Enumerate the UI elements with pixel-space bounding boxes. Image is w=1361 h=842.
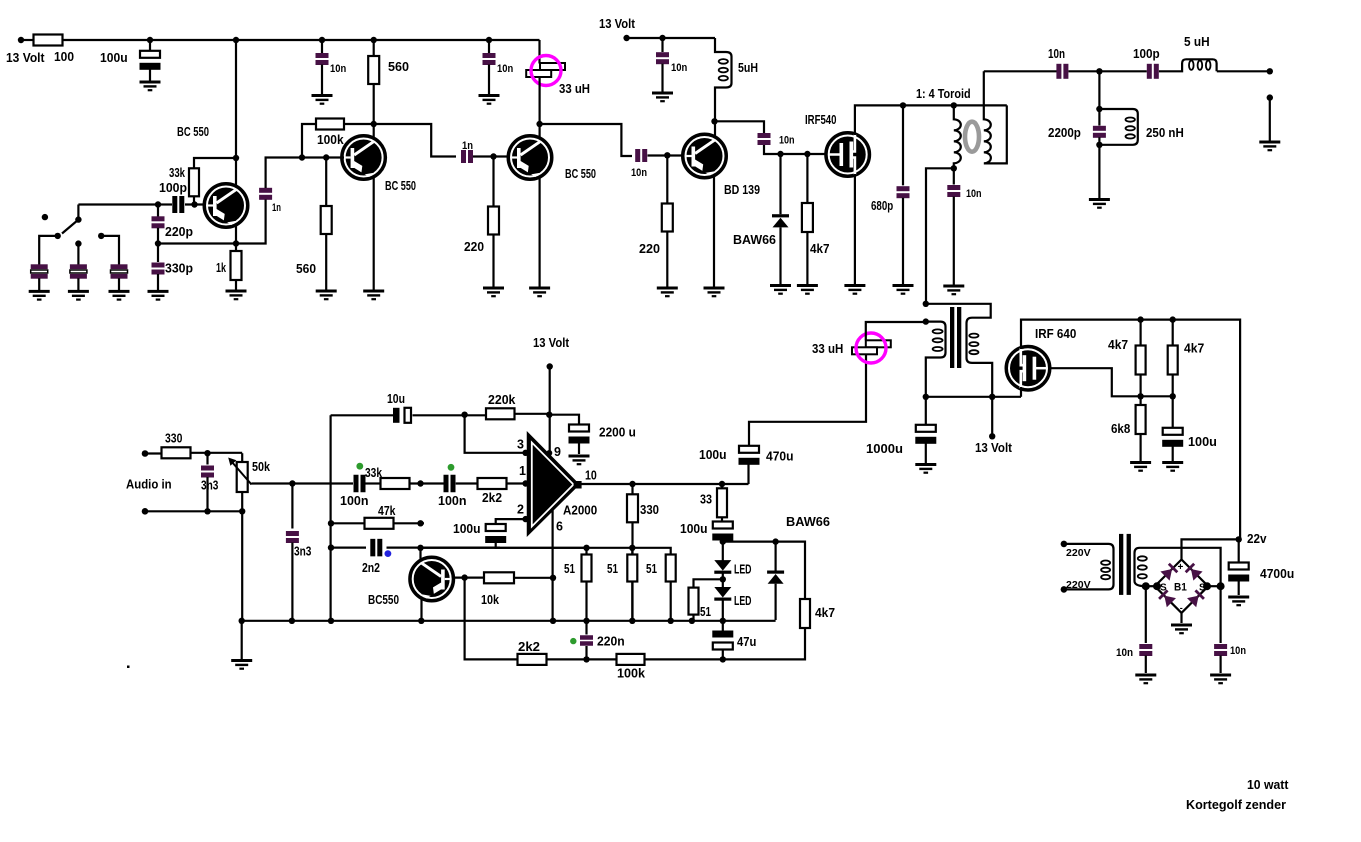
node 220k-13V xyxy=(546,412,552,418)
svg-text:22v: 22v xyxy=(1247,532,1267,546)
wire 33k-100n2 xyxy=(410,482,445,484)
node bridge left xyxy=(1142,582,1150,590)
svg-text:250 nH: 250 nH xyxy=(1146,126,1184,140)
capacitor 10n (rail b) xyxy=(483,53,496,65)
svg-text:13 Volt: 13 Volt xyxy=(599,17,636,31)
svg-text:LED: LED xyxy=(734,563,752,577)
wire 13V second rail xyxy=(627,37,715,39)
wire 2200u to ground xyxy=(578,441,580,455)
node Q4 collector xyxy=(417,545,423,551)
green dot 2 xyxy=(448,464,455,471)
potentiometer 50k xyxy=(237,462,248,492)
wire Q4 collector lead xyxy=(419,548,421,560)
wire 680p bottom xyxy=(902,198,904,285)
node toroid primary top xyxy=(951,102,957,108)
node Q1 emitter xyxy=(233,240,239,246)
wire 4k7d leads xyxy=(1172,320,1174,397)
wire Q2 collector to 1n2 xyxy=(374,124,456,157)
wire BD139 emitter xyxy=(713,175,715,287)
wire Q1 emitter xyxy=(235,226,237,251)
svg-text:51: 51 xyxy=(607,562,618,576)
wire 3n3b bottom xyxy=(291,543,293,621)
bridge diode lower-left xyxy=(1158,589,1176,607)
transistor Q3 BC550 xyxy=(508,136,552,180)
transformer driver primary rings xyxy=(933,329,943,351)
psu transformer core xyxy=(1119,534,1123,595)
svg-text:100u: 100u xyxy=(699,448,727,462)
transistor BD139 xyxy=(683,134,727,178)
wire Q3 emitter xyxy=(538,176,540,287)
capacitor 3n3 (wiper) xyxy=(286,531,299,543)
svg-text:10k: 10k xyxy=(481,593,499,607)
wire tank bottom xyxy=(1098,137,1100,198)
resistor 4k7 (divider upper right) xyxy=(1168,346,1178,375)
wire driver bottom line xyxy=(926,396,1021,398)
wire output mid xyxy=(1069,70,1147,72)
svg-text:BC 550: BC 550 xyxy=(177,125,209,139)
node rail-10n b xyxy=(486,37,492,43)
ground 680p xyxy=(893,286,914,294)
resistor 47k xyxy=(365,518,394,529)
ground 100u irf xyxy=(1162,463,1183,471)
ground 10n psu-b xyxy=(1210,675,1231,683)
wire 3n3b top xyxy=(291,484,293,529)
node bridge right xyxy=(1203,582,1211,590)
wire BAW66b bottom xyxy=(774,584,776,620)
svg-text:100u: 100u xyxy=(453,522,481,536)
wire 220a top xyxy=(492,157,494,207)
transformer toroid primary winding xyxy=(954,105,961,168)
wire 560 top lead xyxy=(373,40,375,56)
node bridge left2 xyxy=(1153,582,1161,590)
resistor 4k7 (divider upper left) xyxy=(1136,346,1146,375)
wire pin6 line xyxy=(551,510,553,621)
ground tank xyxy=(1089,200,1110,208)
wire 100u cap top xyxy=(149,40,151,51)
green dot 3 xyxy=(570,638,576,644)
wire 2n2 line right xyxy=(387,546,501,548)
svg-text:3: 3 xyxy=(517,438,524,452)
wire wiper line xyxy=(252,482,354,484)
svg-text:2200 u: 2200 u xyxy=(599,426,636,440)
bridge diode upper-left xyxy=(1160,562,1178,580)
transformer driver primary winding spine xyxy=(926,322,946,397)
svg-text:3n3: 3n3 xyxy=(201,479,218,493)
node Q1 collector-33k xyxy=(233,155,239,161)
transistor Q4 BC550 xyxy=(410,557,454,601)
transformer driver secondary rings xyxy=(969,334,978,355)
node rail-x331 xyxy=(328,618,334,624)
svg-text:10: 10 xyxy=(585,469,597,483)
ground 10n-a xyxy=(312,96,333,104)
node 10u-220k-pin3 xyxy=(461,412,467,418)
svg-text:330: 330 xyxy=(640,503,659,517)
wire 51 feed rail xyxy=(421,548,671,555)
node rail-51b xyxy=(629,618,635,624)
ground 10n-b xyxy=(479,96,500,104)
wire to BAW66b xyxy=(723,538,805,599)
svg-text:BD 139: BD 139 xyxy=(724,183,760,197)
svg-text:BC 550: BC 550 xyxy=(565,167,596,181)
wire LED junction xyxy=(722,573,724,587)
svg-text:2k2: 2k2 xyxy=(482,491,502,505)
svg-text:10n: 10n xyxy=(631,167,647,179)
wire IRF640 source xyxy=(1020,387,1022,397)
svg-text:10n: 10n xyxy=(966,188,982,200)
wire 330p leads xyxy=(157,244,159,291)
wire 680p top xyxy=(902,105,904,185)
node rail-LED xyxy=(720,618,726,624)
wire 4k7c leads xyxy=(1139,320,1141,397)
wire 560b to ground xyxy=(325,234,327,290)
svg-text:470u: 470u xyxy=(766,450,794,464)
capacitor 100p (output) xyxy=(1147,64,1159,79)
capacitor 1000u xyxy=(915,425,936,444)
wire rail corner down to choke xyxy=(538,40,540,64)
node Q1 base xyxy=(191,201,197,207)
node rail-51a xyxy=(583,618,589,624)
node 47k left xyxy=(328,520,334,526)
svg-text:10u: 10u xyxy=(387,392,405,406)
node rail-audio gnd xyxy=(239,618,245,624)
wire 13V input xyxy=(21,39,34,41)
wire BAW66a top xyxy=(779,154,781,214)
wire Q3 collector out xyxy=(540,124,632,156)
svg-text:1n: 1n xyxy=(462,140,473,152)
wire bridge plus xyxy=(1182,539,1239,559)
svg-text:220k: 220k xyxy=(488,393,515,407)
wire bridge minus xyxy=(1180,613,1182,623)
svg-text:33 uH: 33 uH xyxy=(559,82,590,96)
svg-text:13 Volt: 13 Volt xyxy=(533,336,570,350)
svg-text:50k: 50k xyxy=(252,460,270,474)
wire 10n-b to ground xyxy=(488,65,490,95)
node audio-3n3 xyxy=(204,450,210,456)
ground crystal3 xyxy=(109,291,130,299)
capacitor 220p xyxy=(152,216,165,228)
node rail-pin6 xyxy=(550,618,556,624)
resistor 1k xyxy=(231,251,242,280)
wire 220n bottom xyxy=(585,646,587,659)
resistor 2k2 (feedback) xyxy=(518,654,547,665)
capacitor 100u (pin2) xyxy=(485,524,506,543)
wire 100u cap to ground xyxy=(149,67,151,81)
svg-text:4k7: 4k7 xyxy=(815,606,835,620)
wire 47k line xyxy=(331,522,424,524)
node Q3 base xyxy=(490,153,496,159)
inductor 33uH (Q3 collector choke) xyxy=(526,63,565,77)
wire 10u line xyxy=(331,414,395,416)
inductor 5uH (output) rings xyxy=(1189,60,1210,69)
resistor 2k2 (pin1) xyxy=(478,478,507,489)
node pin1 xyxy=(522,480,528,486)
wire LED2 to rail xyxy=(722,600,724,633)
wire antenna xyxy=(1217,70,1270,72)
wire 220b to ground xyxy=(666,232,668,288)
node rail-560 xyxy=(371,37,377,43)
green dot 1 xyxy=(356,463,363,470)
node Q4 base xyxy=(461,574,467,580)
node 33k-100n2 xyxy=(417,480,423,486)
svg-text:13 Volt: 13 Volt xyxy=(975,441,1013,455)
wire 10n psu-b gnd xyxy=(1219,656,1221,674)
wire 51d bottom xyxy=(692,615,694,621)
terminal audio in bottom xyxy=(142,508,149,515)
transformer psu secondary winding spine xyxy=(1135,548,1221,586)
wire choke to Q3 collector node xyxy=(538,77,540,140)
wire emitter feedback xyxy=(158,242,236,244)
svg-text:5uH: 5uH xyxy=(738,61,758,75)
svg-text:51: 51 xyxy=(564,562,575,576)
driver transformer core xyxy=(950,307,954,368)
svg-text:33k: 33k xyxy=(169,166,185,180)
node xtal-select xyxy=(155,201,161,207)
capacitor 10u xyxy=(393,408,411,423)
ground 10n-c xyxy=(652,93,673,101)
resistor 220 (Q3 base) xyxy=(488,207,499,235)
resistor 51 c xyxy=(666,555,676,582)
resistor 330 (audio in) xyxy=(162,447,191,458)
svg-text:10 watt: 10 watt xyxy=(1247,778,1289,792)
wire 220p top xyxy=(157,205,159,217)
wire crystal2 bottom xyxy=(77,278,79,290)
svg-text:51: 51 xyxy=(646,562,657,576)
wire bridge right xyxy=(1208,585,1220,587)
node bridge right2 xyxy=(1217,582,1225,590)
wire 330 top xyxy=(631,484,633,494)
node gate-BAW66 xyxy=(777,151,783,157)
node 220p-330p xyxy=(155,240,161,246)
bridge diode upper-right xyxy=(1184,562,1202,580)
wire audio top2 xyxy=(191,452,243,454)
wire 10n-b top xyxy=(488,40,490,53)
svg-text:IRF 640: IRF 640 xyxy=(1035,327,1076,341)
node gate-4k7 xyxy=(804,151,810,157)
wire 220k right xyxy=(515,413,550,415)
capacitor 1n (interstage) xyxy=(259,188,272,200)
switch contact 1 xyxy=(55,233,61,239)
mosfet IRF540 xyxy=(826,133,870,177)
wire 1000u bottom xyxy=(925,441,927,464)
wire 4k7b bottom xyxy=(723,628,805,659)
svg-text:+: + xyxy=(1178,562,1184,573)
wire 470u to choke2 xyxy=(749,355,866,447)
wire 560 to Q2 collector xyxy=(373,84,375,140)
svg-text:9: 9 xyxy=(554,445,561,459)
resistor 220k xyxy=(486,408,515,419)
resistor 100k (feedback) xyxy=(617,654,645,665)
ground 6k8 xyxy=(1130,463,1151,471)
terminal 13V second xyxy=(623,35,629,41)
wire crystal1 top xyxy=(39,236,58,265)
node 22v xyxy=(1236,536,1242,542)
transformer psu secondary rings xyxy=(1138,556,1147,578)
wire toroid bottom to 10n xyxy=(953,168,955,184)
node Q4 emitter rail xyxy=(418,618,424,624)
wire 10n psu-a xyxy=(1145,586,1147,643)
svg-text:6: 6 xyxy=(556,520,563,534)
diode BAW66 (gate clamp) xyxy=(772,214,789,227)
ground antenna xyxy=(1259,142,1280,150)
wire 10k to pin6 line xyxy=(514,577,553,579)
node fb-220n xyxy=(583,656,589,662)
svg-text:100u: 100u xyxy=(680,522,708,536)
wire 10n to BD139 base xyxy=(648,154,685,156)
mosfet IRF640 xyxy=(1006,346,1050,390)
svg-text:100n: 100n xyxy=(438,494,467,508)
wire 3n3a bottom xyxy=(206,477,208,511)
svg-text:33k: 33k xyxy=(365,466,382,480)
node drain-680p xyxy=(900,102,906,108)
node output filter xyxy=(1096,68,1102,74)
node rail-3n3b xyxy=(289,618,295,624)
inductor 250nH spine xyxy=(1099,109,1137,145)
svg-text:560: 560 xyxy=(388,60,409,74)
terminal audio in top xyxy=(142,450,149,457)
node Q2 collector xyxy=(371,121,377,127)
node toroid bottom xyxy=(951,165,957,171)
node pot bottom xyxy=(239,508,245,514)
capacitor 10n (rail a) xyxy=(316,53,329,65)
node tank top xyxy=(1096,106,1102,112)
svg-text:4k7: 4k7 xyxy=(1108,338,1128,352)
svg-text:10n: 10n xyxy=(779,135,795,147)
node BD139 base xyxy=(664,152,670,158)
wire 4k7a bottom xyxy=(806,232,808,285)
node fb-47u xyxy=(720,656,726,662)
ground 10n toroid xyxy=(943,286,964,294)
svg-text:-: - xyxy=(1180,603,1183,613)
wire 13V to pin9 xyxy=(549,367,551,454)
svg-text:330p: 330p xyxy=(165,262,193,276)
node gate-6k8 xyxy=(1137,393,1143,399)
ground 560b xyxy=(316,291,337,299)
diode LED 2 xyxy=(714,587,731,601)
capacitor 2n2 xyxy=(370,539,382,557)
wire 220p bottom xyxy=(157,228,159,244)
ground 4k7a xyxy=(797,286,818,294)
crystal X1 xyxy=(31,264,48,278)
wire to switch xyxy=(78,203,158,205)
wire Q2 emitter xyxy=(373,176,375,290)
wire 100u irf leads xyxy=(1172,396,1174,461)
ground BD139 emitter xyxy=(704,288,725,296)
capacitor 10n (Q3-BD139) xyxy=(635,149,647,162)
svg-text:10n: 10n xyxy=(330,63,346,75)
resistor 6k8 xyxy=(1136,405,1146,434)
node out-33 xyxy=(719,481,725,487)
capacitor 2200p xyxy=(1093,126,1106,138)
wire feedback riser xyxy=(465,578,518,660)
ground crystal2 xyxy=(68,291,89,299)
capacitor 10n (psu right) xyxy=(1214,644,1227,656)
ground 4700u xyxy=(1228,597,1249,605)
resistor 560 (Q2 base) xyxy=(321,206,332,234)
wire 10n psu-a gnd xyxy=(1145,656,1147,674)
ground IRF540 source xyxy=(844,286,865,294)
wire 100k right lead xyxy=(344,123,374,125)
wire audio bottom xyxy=(145,510,242,512)
resistor 330 (output) xyxy=(627,494,638,522)
terminal 13V left xyxy=(18,37,24,43)
svg-text:5 uH: 5 uH xyxy=(1184,35,1210,49)
capacitor 10n (toroid) xyxy=(947,185,960,197)
svg-text:33: 33 xyxy=(700,493,712,507)
wire 220b top xyxy=(666,155,668,203)
svg-text:B1: B1 xyxy=(1174,582,1187,594)
resistor 51 b xyxy=(627,555,637,582)
transistor Q2 BC550 xyxy=(342,136,386,180)
switch arm xyxy=(62,220,78,234)
node tank bottom xyxy=(1096,142,1102,148)
node driver left tap xyxy=(923,318,929,324)
svg-text:4k7: 4k7 xyxy=(810,242,830,256)
node Q3 collector xyxy=(536,121,542,127)
svg-text:100u: 100u xyxy=(100,51,128,65)
stray dot xyxy=(127,666,130,669)
ground 100u xyxy=(140,82,161,90)
wire 10n-c to ground xyxy=(661,64,663,92)
svg-text:1: 4 Toroid: 1: 4 Toroid xyxy=(916,87,971,101)
svg-text:51: 51 xyxy=(700,605,711,619)
potentiometer wiper arrow xyxy=(232,462,252,485)
svg-text:47k: 47k xyxy=(378,504,396,518)
capacitor 330p xyxy=(152,263,165,275)
wire audio ground stub xyxy=(241,621,243,660)
svg-text:4k7: 4k7 xyxy=(1184,342,1204,356)
wire 220a to ground xyxy=(492,235,494,288)
resistor 10k xyxy=(484,572,514,583)
crystal X2 xyxy=(70,264,87,278)
capacitor 100n (first) xyxy=(354,475,366,493)
capacitor 100u (LED chain) xyxy=(712,522,733,541)
switch pole xyxy=(75,216,81,222)
wire 13V mid-right xyxy=(991,397,993,437)
resistor 4k7 (gate) xyxy=(802,203,813,232)
wire 10n psu-b xyxy=(1219,586,1221,643)
wire 10n-c top xyxy=(661,38,663,52)
svg-text:2: 2 xyxy=(517,503,524,517)
resistor 100 xyxy=(34,35,63,46)
wire output line xyxy=(579,483,749,485)
wire antenna ground xyxy=(1269,98,1271,141)
blue dot xyxy=(385,550,392,557)
wire 100u pin2 return xyxy=(496,543,587,548)
svg-text:10n: 10n xyxy=(671,62,688,74)
wire LED jog to 51d xyxy=(694,579,723,587)
inductor 5uH (BD139 drain) rings xyxy=(719,59,728,80)
svg-text:2k2: 2k2 xyxy=(518,640,540,654)
transformer driver secondary winding spine xyxy=(926,304,992,397)
op-amp output pad xyxy=(574,481,582,489)
wire 1n top xyxy=(266,158,302,189)
wire 4700u bottom xyxy=(1238,579,1240,596)
ground 330p xyxy=(148,291,169,299)
capacitor 10n (IRF540 gate) xyxy=(758,133,771,145)
wire Q1 collector xyxy=(235,40,237,187)
inductor 5uH output spine xyxy=(1159,59,1217,71)
resistor 51 a xyxy=(582,555,592,582)
svg-text:47u: 47u xyxy=(737,635,756,649)
wire pot top lead xyxy=(241,453,243,462)
wire IRF640 drain xyxy=(1021,320,1240,540)
capacitor 100u (IRF640 gate) xyxy=(1162,428,1183,447)
wire left riser x331 xyxy=(330,415,332,621)
crystal X3 xyxy=(111,264,128,278)
resistor 4k7 (feedback) xyxy=(800,599,810,628)
node 51b top xyxy=(629,545,635,551)
svg-text:100k: 100k xyxy=(317,133,344,147)
